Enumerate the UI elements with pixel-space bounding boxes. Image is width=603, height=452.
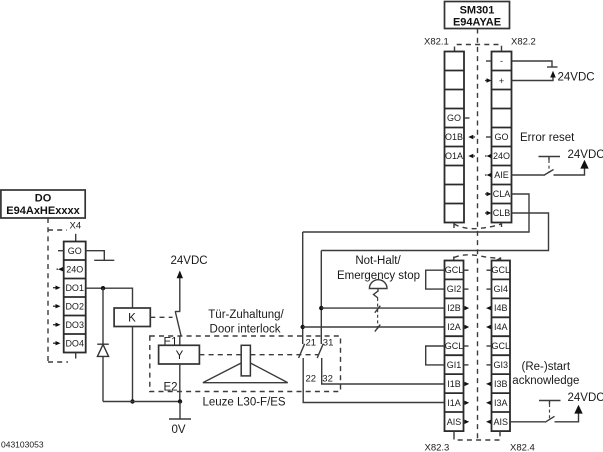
svg-text:acknowledge: acknowledge [512,375,579,387]
pin arrow DO4 [53,341,61,345]
junction dot node B / I2B branch [319,306,323,310]
wire switch to 24VDC arrow (acknowledge) [555,413,579,422]
wire K coil to 0V rail [132,327,134,402]
S1 contact blade on I2A wire [375,325,381,332]
wire solenoid Y to 0V node [179,364,181,402]
jumper GCL-GI1 [426,346,445,365]
svg-text:GCL: GCL [492,265,511,275]
connector X82.4 terminal strip [492,261,511,432]
24VDC supply arrow (error reset) [580,160,588,169]
dashed actuator link Y to latch [199,354,241,356]
node A vertical wire (from CLA) [302,232,304,344]
dashed bracket X4 top [48,229,67,231]
X4 top stub [75,234,77,242]
svg-text:I1A: I1A [447,398,461,408]
svg-text:X82.1: X82.1 [424,37,449,48]
pin arrow O1A [468,154,475,158]
X4 bottom stub [75,353,77,359]
junction dot DO1 / diode V1 [101,286,105,290]
junction dot E2 / 0V [178,399,182,403]
pin arrow O1B [468,135,475,139]
safety module U1 SM301 E94AYAE [445,2,510,29]
svg-text:24O: 24O [493,151,510,161]
connector X4 terminal strip [64,242,86,353]
pin stub minus X82.2 [486,60,492,62]
svg-text:32: 32 [322,374,333,385]
diode V1 branch wire [102,288,104,401]
X82.2 bottom stub [501,223,503,228]
svg-text:O1B: O1B [445,132,463,142]
svg-text:GCL: GCL [445,265,464,275]
svg-text:DO: DO [35,193,52,205]
svg-text:X4: X4 [70,221,82,232]
svg-text:GO: GO [447,113,461,123]
svg-text:I3A: I3A [494,398,508,408]
svg-text:Door interlock: Door interlock [210,323,281,335]
svg-text:DO2: DO2 [65,301,84,311]
pin arrow AIS X82.4 [486,420,493,424]
wire DO1 to relay K coil [86,288,133,308]
svg-text:24VDC: 24VDC [171,255,208,267]
svg-text:DO3: DO3 [65,320,84,330]
svg-text:CLA: CLA [493,189,511,199]
svg-text:K: K [128,313,136,325]
svg-text:GO: GO [68,246,82,256]
switch S3 actuator bar [539,401,561,419]
pin stubs X82.4 GCL/GI4/GCL/GI3 [487,269,492,271]
wire node B to I2B [321,307,444,309]
pin arrow DO3 [53,323,61,327]
X82.4 top stub [500,258,502,261]
wire 22 down to I1A run [303,358,444,403]
S1 actuator link [374,289,379,299]
ground 0V symbol [169,402,191,437]
24VDC supply arrow (door interlock) [177,271,183,279]
svg-text:DO4: DO4 [65,338,84,348]
door contact blade 31-32 [317,344,323,358]
emergency stop button S1 mushroom head [369,280,387,289]
svg-text:I4B: I4B [494,303,508,313]
solenoid Y [159,345,200,364]
svg-text:24VDC: 24VDC [568,149,603,161]
relay coil K1 [114,308,150,327]
svg-text:GCL: GCL [492,341,511,351]
svg-text:X82.2: X82.2 [511,37,536,48]
svg-text:E94AxHExxxx: E94AxHExxxx [6,205,80,217]
switch S2 error reset blade [544,170,554,176]
svg-text:0V: 0V [172,424,186,436]
dashed module boundary line (center) [477,29,479,441]
pin arrow AIE [485,173,492,177]
svg-text:I1B: I1B [447,379,461,389]
svg-text:I3B: I3B [494,379,508,389]
wire AIS X82.4 to acknowledge switch [510,421,545,423]
svg-text:24VDC: 24VDC [568,392,603,404]
svg-text:Tür-Zuhaltung/: Tür-Zuhaltung/ [208,309,284,321]
24VDC supply arrow (plus) [550,71,556,78]
pin arrow DO1 [53,286,61,290]
junction dot node A / I2A branch [301,325,305,329]
svg-text:E94AYAE: E94AYAE [453,17,501,29]
svg-text:31: 31 [323,338,334,349]
wire AIE to error-reset switch [512,174,544,176]
svg-text:24O: 24O [66,264,83,274]
svg-text:CLB: CLB [493,208,511,218]
wire GO X4 to 0V tick [86,251,105,261]
svg-text:GCL: GCL [445,341,464,351]
svg-text:GO: GO [494,132,508,142]
dashed arc between strips (lower) [454,255,501,258]
svg-text:SM301: SM301 [460,5,495,17]
pin arrow I1B [464,382,470,386]
svg-text:I2B: I2B [447,303,461,313]
dashed bracket X4 bottom [48,361,68,363]
dashed link K coil to K contact [150,316,172,318]
X82.3 top stub [453,257,455,261]
door cam triangle [203,363,288,383]
pin arrow I2B [464,306,470,310]
wire 24VDC arrow to K contact [179,278,181,312]
relay contact K blade [175,312,181,336]
pin arrow CLA [485,192,492,196]
wire node A to I2A [303,326,445,328]
bottom stubs X82.3/X82.4 [453,431,455,434]
pin arrow I2A [464,325,470,329]
svg-text:X82.4: X82.4 [510,443,535,452]
svg-text:043103053: 043103053 [1,440,44,450]
connector X82.3 terminal strip [445,261,464,432]
K contact fixed tick [175,311,181,313]
node B vertical wire (from CLB) [320,251,322,345]
door contact blade 21-22 [299,344,305,358]
0V tick bar (minus) [547,66,558,68]
pin arrow I4B [486,306,493,310]
pin arrow 24O X4 [57,267,64,271]
0V tick bar (GO X4) [94,259,114,261]
wire plus terminal to 24VDC arrow [512,77,554,81]
door latch bar [241,345,250,376]
svg-text:Y: Y [176,350,184,362]
svg-text:21: 21 [306,338,317,349]
svg-text:I4A: I4A [494,322,508,332]
svg-text:24VDC: 24VDC [558,71,595,83]
svg-text:GI4: GI4 [494,284,509,294]
svg-text:+: + [499,76,504,86]
pin arrow I4A [486,325,493,329]
24VDC supply arrow (acknowledge) [574,405,582,414]
door interlock dashed enclosure [150,336,341,392]
wire switch to 24VDC arrow (error reset) [554,168,585,175]
wire minus terminal to 0V tick [512,61,553,67]
pin arrow 24O [485,154,492,158]
pin arrow I1A [464,401,470,405]
svg-text:Error reset: Error reset [520,132,575,144]
0V rail wire [103,401,180,403]
wire CLA to node A [303,194,529,232]
wire 32 down to I1B run [322,358,445,384]
svg-text:AIS: AIS [494,417,509,427]
drive box DO E94AxHExxxx [1,190,85,218]
diode V1 [97,344,109,356]
pin arrow I3A [486,401,493,405]
dashed bracket from module to X82.1/X82.2 [455,45,502,52]
svg-text:X82.3: X82.3 [425,443,450,452]
pin stub GO X82.2 [486,136,492,138]
svg-text:AIE: AIE [494,170,509,180]
svg-text:GI2: GI2 [447,284,462,294]
dashed boundary from DO box [47,218,49,362]
dashed arc between X82.1/X82.2 and X82.3/X82.4 (upper) [454,224,501,229]
X82.1 bottom stub [453,223,455,229]
pin stubs X82.3 GCL/GI2/GCL/GI1 [464,269,469,271]
pin arrow AIS X82.3 [464,420,470,424]
svg-text:GI3: GI3 [494,360,509,370]
dashed actuator link latch to contacts [250,354,318,356]
wire CLB to node B [321,213,548,251]
junction dot K / 0V rail [130,399,134,403]
svg-text:Not-Halt/: Not-Halt/ [355,255,401,267]
wire K contact to solenoid Y [179,336,181,346]
svg-text:GI1: GI1 [447,360,462,370]
svg-text:O1A: O1A [445,151,463,161]
svg-text:Leuze L30-F/ES: Leuze L30-F/ES [203,396,286,408]
pin arrow DO2 [53,304,61,308]
pin stub GO X82.1 [464,117,470,119]
svg-text:I2A: I2A [447,322,461,332]
switch S3 acknowledge blade [545,416,555,422]
svg-text:AIS: AIS [447,417,462,427]
connector X82.1 terminal strip [445,52,465,223]
pin arrow plus X82.2 [485,78,492,82]
svg-text:E2: E2 [164,382,178,394]
switch S2 actuator bar [539,157,561,172]
pin arrow CLB [485,211,492,215]
jumper GCL-GI2 [426,270,445,289]
svg-text:DO1: DO1 [65,283,84,293]
S1 contact blade on I2B wire [375,306,381,313]
pin arrow I3B [486,382,493,386]
svg-text:(Re-)start: (Re-)start [522,361,571,373]
dashed bottom bracket [454,435,500,441]
pin stub GO X4 [58,250,64,252]
svg-text:-: - [500,56,503,66]
svg-text:22: 22 [306,374,317,385]
connector X82.2 terminal strip [492,52,512,223]
